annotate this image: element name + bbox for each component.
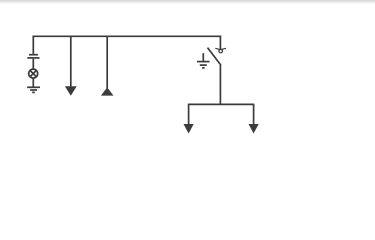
net arrow down (branch 2) <box>65 86 77 96</box>
wire branch 2 drop <box>70 36 72 87</box>
wire branch 1 drop <box>32 36 34 54</box>
battery cell <box>27 55 39 58</box>
net arrow down (bottom right) <box>249 124 259 134</box>
wire bottom bar <box>189 103 254 105</box>
wire branch 3 drop <box>106 36 108 89</box>
wire lamp to ground <box>32 78 34 87</box>
ground (switch earth) <box>197 53 210 68</box>
wire right drop <box>253 104 255 125</box>
wire top bus <box>33 35 222 37</box>
wire left drop <box>188 104 190 125</box>
net arrow up (branch 3) <box>101 87 114 95</box>
switch SPST (open, with actuator arrow and contact circle) <box>208 48 226 64</box>
wire cell to lamp <box>32 59 34 69</box>
ground (left earth) <box>27 87 40 92</box>
wire switch to bottom bar <box>219 64 221 105</box>
wire switch drop from bus <box>219 36 221 50</box>
lamp <box>29 69 38 78</box>
net arrow down (bottom left) <box>184 124 194 134</box>
